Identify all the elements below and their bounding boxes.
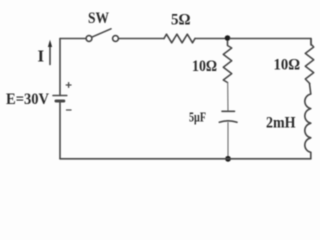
wire capacitor to node B xyxy=(227,123,229,159)
capacitor 5µF xyxy=(219,111,237,122)
wire inductor to bottom-right corner xyxy=(310,152,312,158)
battery E xyxy=(53,96,67,102)
wire top-left horizontal (corner to switch) xyxy=(60,38,86,40)
svg-text:5µF: 5µF xyxy=(189,111,206,126)
svg-text:I: I xyxy=(38,47,45,66)
wire top-left vertical (corner to battery plus) xyxy=(59,39,61,96)
svg-text:E=30V: E=30V xyxy=(6,91,49,108)
node A junction dot xyxy=(225,35,231,41)
resistor 10Ω right xyxy=(305,39,313,84)
wire bottom xyxy=(60,158,311,160)
wire bottom-left vertical (battery minus to corner) xyxy=(59,102,61,159)
wire node A to top-right corner xyxy=(230,39,311,46)
inductor 2mH xyxy=(305,94,311,152)
svg-text:10Ω: 10Ω xyxy=(274,57,301,74)
svg-text:10Ω: 10Ω xyxy=(192,58,217,75)
svg-text:2mH: 2mH xyxy=(266,115,296,132)
wire resistor to inductor xyxy=(310,84,311,94)
current arrow I xyxy=(48,40,52,65)
wire resistor to node A xyxy=(195,38,228,40)
resistor 10Ω middle xyxy=(223,41,231,83)
svg-text:SW: SW xyxy=(88,10,109,27)
svg-text:5Ω: 5Ω xyxy=(171,12,191,29)
battery plus sign xyxy=(66,83,71,88)
resistor 5Ω xyxy=(164,34,195,43)
switch SW xyxy=(86,29,118,42)
wire switch to resistor R1 xyxy=(119,38,165,40)
wire resistor to capacitor xyxy=(227,83,229,112)
node B junction dot xyxy=(225,156,231,162)
battery minus sign xyxy=(67,109,72,111)
